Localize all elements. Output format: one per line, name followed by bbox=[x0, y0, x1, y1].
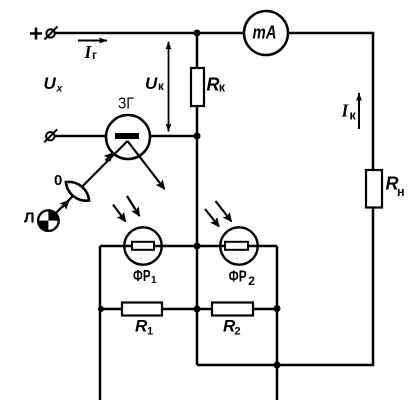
svg-text:1: 1 bbox=[147, 326, 153, 338]
svg-text:0: 0 bbox=[54, 172, 62, 189]
svg-text:mA: mA bbox=[253, 23, 277, 43]
svg-text:к: к bbox=[219, 81, 226, 95]
svg-text:1: 1 bbox=[151, 275, 157, 286]
svg-text:Л: Л bbox=[24, 210, 35, 227]
svg-text:U: U bbox=[145, 74, 158, 93]
svg-text:ЗГ: ЗГ bbox=[118, 96, 134, 113]
svg-text:2: 2 bbox=[235, 326, 241, 338]
svg-text:ФР: ФР bbox=[133, 268, 151, 285]
svg-text:г: г bbox=[92, 48, 97, 62]
svg-text:R: R bbox=[207, 75, 220, 95]
svg-text:2: 2 bbox=[248, 274, 255, 288]
svg-text:к: к bbox=[350, 109, 357, 123]
svg-text:U: U bbox=[44, 74, 57, 93]
svg-text:х: х bbox=[56, 83, 64, 95]
svg-text:н: н bbox=[397, 185, 405, 199]
svg-text:к: к bbox=[158, 81, 164, 93]
svg-text:ФР: ФР bbox=[229, 269, 247, 286]
svg-text:I: I bbox=[341, 101, 350, 121]
